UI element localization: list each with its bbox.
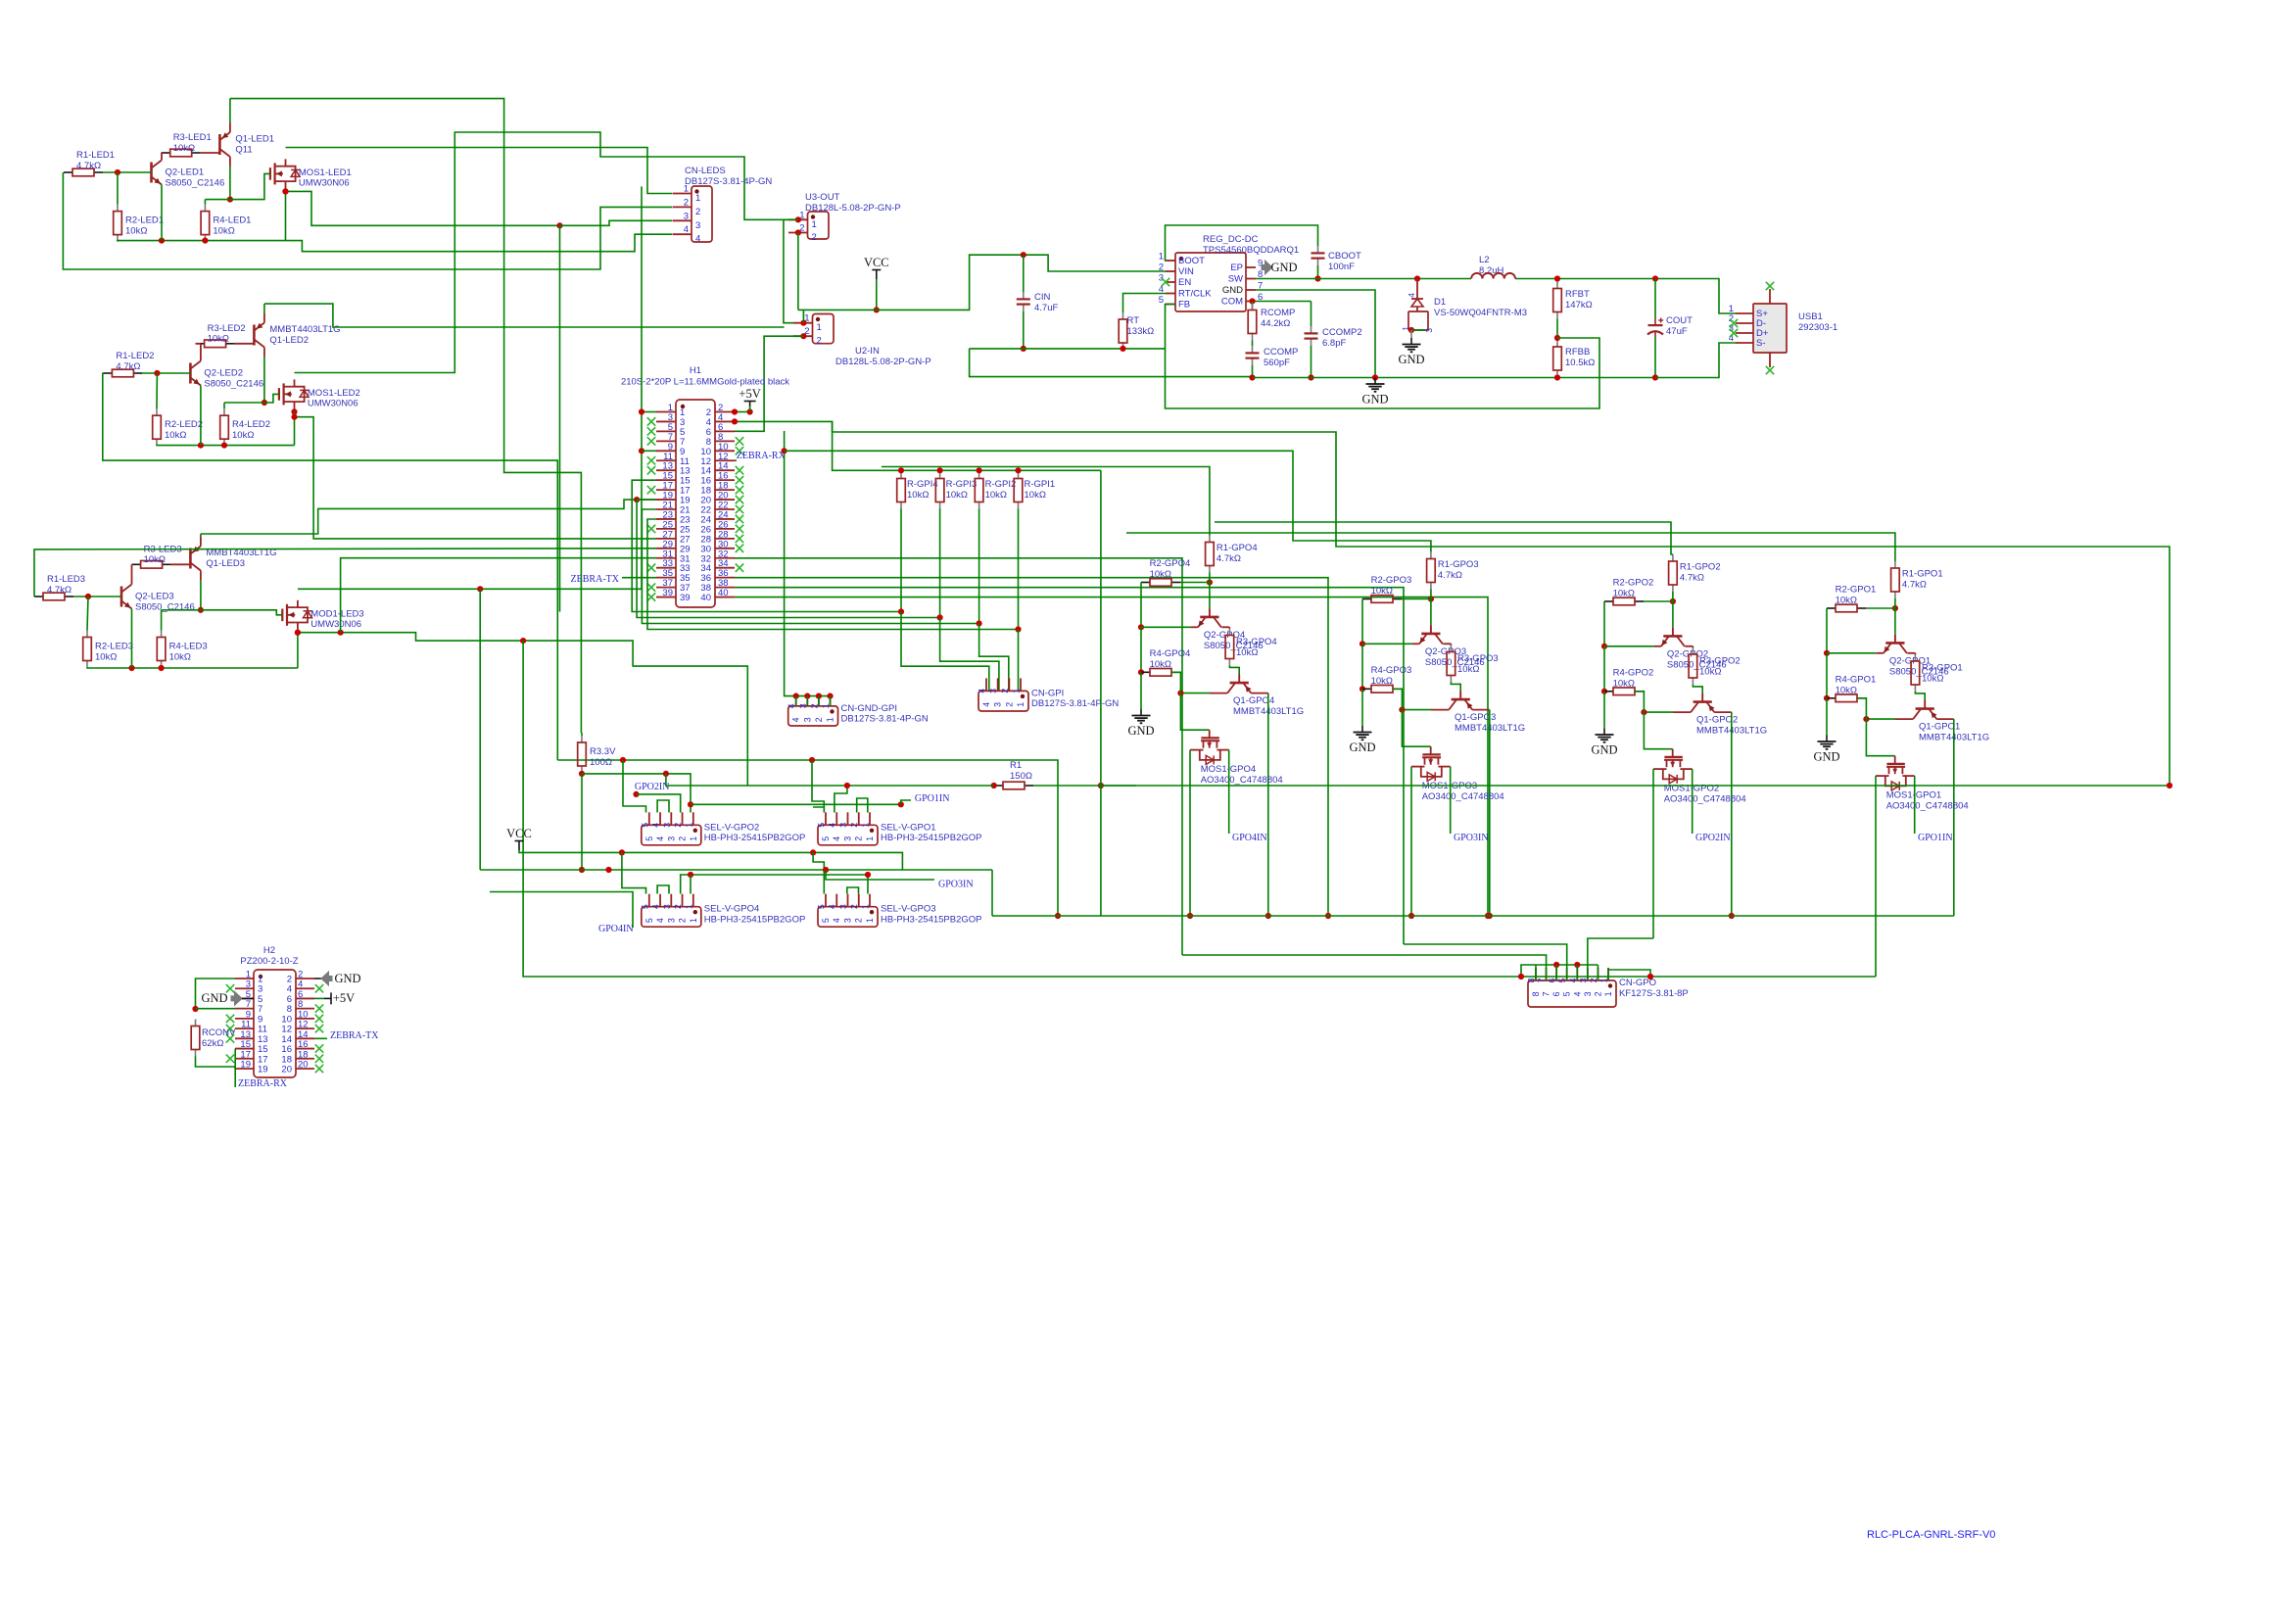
junction row802-2215 [2167, 783, 2172, 788]
wire gpo1in stub [901, 800, 911, 804]
svg-text:R1: R1 [1010, 760, 1022, 771]
wire R4 top LED3 [161, 610, 163, 631]
wire MOS source down [1652, 769, 1654, 938]
wire r1 bottom [1894, 598, 1896, 608]
wire U3-OUT pin1 to U2-IN pin1 [784, 219, 798, 322]
wire Q1 emitter LED3 [200, 534, 202, 537]
wire Q1 emitter down GPO3 [1489, 710, 1491, 916]
svg-text:RT/CLK: RT/CLK [1178, 289, 1212, 300]
resistor R4-LED1 [204, 205, 206, 212]
transistor Q1-LED2 [253, 325, 256, 346]
junction sel1 [844, 783, 850, 788]
wire emitter GPO4 [1141, 626, 1190, 628]
inductor L2 [1471, 273, 1515, 279]
resistor R1-GPO2 [1672, 554, 1674, 561]
resistor R3.3V [581, 736, 583, 742]
wire q1 collector [1644, 711, 1673, 713]
svg-text:10kΩ: 10kΩ [1836, 685, 1857, 695]
wire left rail bottom [1140, 672, 1142, 709]
svg-text:44.2kΩ: 44.2kΩ [1261, 318, 1290, 329]
resistor R2-GPO3 [1362, 598, 1371, 600]
wire r1 bottom [1672, 592, 1674, 601]
svg-text:4: 4 [655, 836, 665, 841]
svg-text:8: 8 [1527, 978, 1537, 982]
junction v655 pin1 [639, 408, 644, 414]
svg-text:5: 5 [640, 904, 649, 909]
junction CIN bottom [1021, 346, 1026, 352]
MOSFET MOS1-GPO4 [1209, 730, 1211, 738]
junction pin40 row935 [1485, 913, 1491, 919]
wire bus985 [1536, 964, 1598, 966]
svg-text:GPO3IN: GPO3IN [1454, 833, 1489, 843]
wire long 935 [992, 915, 1954, 917]
wire to USB S- [1655, 343, 1736, 378]
wire 964 to pin5 [1404, 944, 1567, 968]
svg-text:CN-GPI: CN-GPI [1031, 688, 1064, 698]
wire to USB S+ [1655, 279, 1736, 314]
wire CN-GPO pin lead [1546, 968, 1548, 980]
junction Q2e-LED2 [198, 443, 204, 449]
capacitor CIN [1023, 292, 1025, 299]
svg-text:10.5kΩ: 10.5kΩ [1565, 358, 1595, 368]
wire H1 pin1 left [642, 411, 656, 413]
svg-text:6: 6 [1551, 991, 1561, 996]
svg-text:GPO1IN: GPO1IN [1918, 833, 1953, 843]
junction FB divider [1554, 335, 1560, 341]
svg-text:GPO3IN: GPO3IN [938, 880, 974, 890]
transistor Q1-GPO4 [1238, 674, 1240, 683]
wire R1-LED3 to Q2 base [73, 596, 121, 597]
svg-text:5: 5 [821, 918, 831, 923]
svg-text:HB-PH3-25415PB2GOP: HB-PH3-25415PB2GOP [704, 915, 806, 926]
svg-text:Q2-LED1: Q2-LED1 [166, 167, 205, 178]
wire feed R1-GPO2 [1215, 522, 1673, 554]
svg-text:2: 2 [814, 717, 824, 722]
svg-text:3: 3 [838, 823, 848, 828]
wire pin lead [818, 696, 820, 706]
wire sel2 pins34 [657, 800, 669, 813]
wire Q1 collector LED3 [200, 580, 202, 610]
wire R1-LED1 to Q2 base [103, 171, 152, 173]
wire sel1 pin5 [813, 807, 824, 813]
resistor R4-GPO1 [1827, 697, 1836, 699]
junction vcc row a [619, 849, 625, 855]
svg-text:3: 3 [1583, 991, 1593, 996]
wire GPO4IN [490, 892, 633, 929]
wire base GPO1 [1894, 608, 1896, 635]
wire Q1 emitter LED1 [229, 99, 231, 123]
junction CIN top [1021, 252, 1026, 258]
svg-text:MOS1-LED2: MOS1-LED2 [308, 388, 360, 399]
svg-text:MOD1-LED3: MOD1-LED3 [310, 608, 363, 619]
wire r2 to node [1866, 607, 1895, 609]
svg-text:5: 5 [1557, 978, 1567, 982]
junction sel2 pin1 [688, 801, 693, 807]
w [234, 1048, 236, 1050]
svg-text:5: 5 [644, 836, 654, 841]
capacitor CCOMP [1252, 346, 1254, 353]
transistor Q1-LED3 [189, 549, 192, 569]
svg-text:40: 40 [700, 593, 711, 603]
resistor R2-GPO1 [1827, 607, 1836, 609]
svg-text:H1: H1 [690, 365, 701, 376]
svg-text:HB-PH3-25415PB2GOP: HB-PH3-25415PB2GOP [704, 833, 806, 843]
svg-text:4.7kΩ: 4.7kΩ [76, 161, 101, 171]
node source-LED1 [282, 188, 288, 194]
wire to SEL-V-GPO1 pin5 [812, 760, 824, 813]
svg-text:4: 4 [832, 836, 841, 841]
junction pin2 [732, 408, 738, 414]
wire Q1-LED2 emitter net [264, 304, 785, 327]
svg-text:HB-PH3-25415PB2GOP: HB-PH3-25415PB2GOP [881, 833, 982, 843]
svg-text:10kΩ: 10kΩ [232, 430, 254, 441]
svg-text:S-: S- [1756, 338, 1766, 349]
svg-text:R2-GPO4: R2-GPO4 [1150, 558, 1191, 569]
svg-text:8: 8 [1531, 991, 1541, 996]
svg-text:2: 2 [684, 197, 689, 208]
resistor R3-GPO4 [1228, 629, 1230, 636]
svg-text:4.7kΩ: 4.7kΩ [1902, 579, 1927, 590]
svg-text:3: 3 [993, 702, 1003, 707]
svg-text:3: 3 [1159, 273, 1164, 284]
wire to SEL-V-GPO2 pin5 [623, 760, 646, 813]
svg-text:4: 4 [787, 703, 796, 708]
wire pin36 long [735, 578, 1328, 916]
svg-text:Q1-LED3: Q1-LED3 [206, 558, 245, 569]
wire MOS source down [1410, 767, 1412, 916]
connector U2-IN [813, 314, 835, 344]
junction CN-GND-GPI pin [793, 693, 799, 699]
wire U3-OUT pin2 down [797, 233, 799, 310]
transistor Q2-GPO2 [1672, 628, 1674, 637]
junction source branch [556, 222, 562, 228]
svg-text:ZEBRA-TX: ZEBRA-TX [571, 574, 620, 585]
resistor R2-GPO2 [1604, 600, 1613, 602]
junction COUT top [1652, 275, 1658, 281]
junction RT bottom [1120, 346, 1125, 352]
svg-text:210S-2*20P L=11.6MMGold-plated: 210S-2*20P L=11.6MMGold-plated black [621, 377, 789, 388]
svg-text:4: 4 [981, 702, 991, 707]
wire Q2 emitter LED3 [131, 609, 133, 669]
wire Q1 collector LED1 [229, 167, 231, 200]
resistor RCOMP [1252, 304, 1254, 310]
svg-text:GPO2IN: GPO2IN [635, 782, 670, 792]
svg-text:6.8pF: 6.8pF [1322, 338, 1346, 349]
wire gate LED2 [224, 394, 279, 403]
resistor R4-GPO4 [1141, 671, 1150, 673]
svg-text:AO3400_C4748804: AO3400_C4748804 [1422, 791, 1504, 802]
svg-text:GND: GND [1127, 724, 1154, 738]
wire MOS drain down [1450, 767, 1452, 834]
svg-text:1: 1 [826, 717, 835, 722]
junction left rail GPO2 [1601, 644, 1607, 649]
junction gate GPO4 [1177, 691, 1183, 696]
junction R1/R2 GPO1 [1892, 605, 1898, 611]
svg-text:1: 1 [689, 836, 698, 841]
wire +5V stem [749, 406, 751, 412]
svg-text:DB127S-3.81-4P-GN: DB127S-3.81-4P-GN [685, 176, 772, 187]
w [234, 1067, 236, 1069]
junction RCONV top [192, 1006, 198, 1012]
svg-text:Q2-LED3: Q2-LED3 [135, 592, 174, 602]
svg-text:EP: EP [1230, 263, 1243, 273]
wire R1-LED2 net [103, 373, 558, 761]
resistor R2-LED2 [156, 408, 158, 415]
svg-text:4: 4 [791, 717, 801, 722]
junction drain branch [477, 586, 483, 592]
wire gnd row to rail [970, 349, 1255, 377]
junction COUT bottom [1652, 374, 1658, 380]
wire gate GPO4 [1171, 672, 1210, 730]
svg-text:R-GPI1: R-GPI1 [1025, 479, 1056, 490]
wire R-GPI3 down [939, 509, 941, 618]
connector CN-GPO [1528, 980, 1616, 1007]
svg-text:1: 1 [865, 836, 875, 841]
junction U2-IN pin1 [800, 320, 806, 326]
svg-text:10kΩ: 10kΩ [208, 334, 229, 345]
wire r2 to node [1402, 598, 1431, 600]
wire H1 pin4 to GPI rail [735, 421, 1101, 470]
svg-text:10kΩ: 10kΩ [1836, 595, 1857, 605]
svg-text:R1-GPO1: R1-GPO1 [1902, 569, 1943, 580]
junction R4 GPO3 [1360, 686, 1365, 692]
IC REG_DC-DC TPS54560BQDDARQ1 [1175, 253, 1246, 311]
svg-text:10kΩ: 10kΩ [95, 651, 117, 662]
wire emitter GPO3 [1362, 643, 1411, 645]
connector CN-LEDS [692, 186, 712, 242]
svg-text:2: 2 [854, 836, 864, 841]
svg-text:1: 1 [817, 322, 822, 333]
junction R-GPI4 top [898, 467, 904, 473]
svg-text:GPO4IN: GPO4IN [1232, 833, 1267, 843]
resistor R1-GPO3 [1430, 552, 1432, 559]
svg-text:GND: GND [201, 991, 227, 1005]
svg-text:5: 5 [640, 823, 649, 828]
capacitor CCOMP2 [1311, 326, 1312, 333]
svg-text:R2-LED2: R2-LED2 [165, 419, 203, 430]
transistor Q2-GPO4 [1209, 608, 1211, 617]
wire left rail mid [1140, 627, 1142, 672]
svg-text:2: 2 [1593, 991, 1602, 996]
svg-text:1: 1 [1159, 252, 1164, 263]
junction D1 [1414, 275, 1420, 281]
svg-text:R4-GPO4: R4-GPO4 [1150, 648, 1191, 659]
junction U3-OUT pin1 [795, 216, 801, 222]
wire R1-LED2 to Q2 base [142, 372, 190, 374]
svg-text:RFBT: RFBT [1565, 289, 1590, 300]
svg-text:10kΩ: 10kΩ [1236, 647, 1258, 658]
wire MOS source LED3 [297, 630, 299, 633]
wire feed R1-GPO4 [882, 467, 1210, 536]
resistor R3-LED2 [196, 343, 205, 345]
svg-text:R1-GPO4: R1-GPO4 [1217, 543, 1258, 553]
svg-text:2: 2 [1159, 263, 1164, 273]
junction R4-LED1 [202, 238, 208, 244]
svg-text:FB: FB [1178, 300, 1190, 310]
wire U2-IN pin2 to H1 pin6 [735, 336, 803, 431]
junction bus985 b [1574, 962, 1580, 968]
wire row802 ext [1101, 785, 2170, 787]
wire bus4 to CN-GPI pin1 [1018, 630, 1020, 692]
MOSFET MOS1-GPO3 [1430, 746, 1432, 754]
wire r3 to q1 [1229, 666, 1239, 675]
wire gnd bus up [784, 431, 786, 627]
svg-text:H2: H2 [263, 945, 275, 956]
svg-text:4.7uF: 4.7uF [1034, 303, 1058, 313]
wire pin35 to label [622, 577, 656, 579]
node base-LED3 [85, 594, 91, 599]
junction bus3 [977, 620, 982, 626]
wire left rail top [1361, 599, 1363, 645]
svg-text:R4-GPO1: R4-GPO1 [1836, 675, 1877, 686]
svg-text:Q2-LED2: Q2-LED2 [204, 368, 243, 379]
resistor RFBT [1556, 282, 1558, 289]
svg-text:R2-LED1: R2-LED1 [125, 215, 164, 226]
wire long row441-558 [833, 421, 2170, 786]
wire CN-GPO pin lead [1587, 968, 1589, 980]
wire r1 bottom [1430, 590, 1432, 599]
wire Q1 emitter LED2 [263, 304, 265, 313]
junction R4 GPO4 [1138, 669, 1144, 675]
svg-text:RT: RT [1127, 315, 1140, 326]
junction CBOOT-SW [1314, 275, 1320, 281]
wire gate GPO2 [1635, 692, 1673, 749]
svg-text:4: 4 [655, 918, 665, 923]
node gate-LED1 [227, 197, 233, 203]
svg-text:S8050_C2146: S8050_C2146 [166, 177, 225, 188]
wire left rail bottom [1361, 689, 1363, 726]
connector USB1 292303-1 [1753, 304, 1787, 353]
wire LED1 rail to CN-LEDS pin4 [286, 234, 673, 252]
wire CBOOT bottom [1317, 265, 1319, 279]
wire R-GPI4 down [900, 509, 902, 612]
wire base GPO2 [1672, 601, 1674, 628]
svg-text:R3-GPO2: R3-GPO2 [1699, 656, 1741, 667]
svg-text:2: 2 [678, 918, 688, 923]
svg-text:R1-GPO2: R1-GPO2 [1680, 562, 1721, 573]
wire pin32 long [735, 558, 1182, 955]
junction emitter row935 GPO2 [1729, 913, 1735, 919]
junction CCOMP rail [1249, 374, 1255, 380]
junction U3-OUT pin2 [795, 229, 801, 235]
wire RCOMP-CCOMP [1252, 341, 1254, 347]
junction RFBT top [1554, 275, 1560, 281]
svg-text:10kΩ: 10kΩ [213, 225, 234, 236]
resistor R1-LED1 [64, 171, 72, 173]
svg-text:4: 4 [832, 918, 841, 923]
svg-text:DB128L-5.08-2P-GN-P: DB128L-5.08-2P-GN-P [805, 203, 901, 214]
transistor Q2-GPO3 [1430, 625, 1432, 634]
wire R4 top LED2 [223, 403, 225, 408]
wire left rail mid [1603, 646, 1605, 692]
svg-text:3: 3 [666, 918, 676, 923]
svg-text:4: 4 [684, 224, 689, 235]
resistor R2-LED1 [117, 205, 119, 212]
junction emitter row935 GPO4 [1265, 913, 1271, 919]
wire pin lead [795, 696, 797, 706]
wire COM [1256, 301, 1312, 303]
junction v655 pin9 [639, 448, 644, 454]
svg-text:R-GPI4: R-GPI4 [907, 479, 938, 490]
svg-text:10kΩ: 10kΩ [1371, 586, 1393, 597]
wire to SEL-V-GPO4 pin5 [622, 852, 646, 893]
transistor Q1-GPO1 [1924, 700, 1926, 709]
junction row776 a [620, 757, 626, 763]
wire bus2 to CN-GPI pin3 [940, 618, 999, 692]
wire CCOMP2 to rail [1311, 346, 1312, 378]
svg-text:1: 1 [1603, 991, 1613, 996]
wire gnd row 356 [970, 348, 1166, 350]
wire gate GPO3 [1393, 689, 1431, 746]
wire q1 collector [1866, 718, 1895, 720]
node base-LED2 [154, 370, 160, 376]
junction row776 down [1055, 913, 1061, 919]
junction R3.3V bottom [579, 771, 585, 777]
junction Q2e-LED3 [128, 665, 134, 671]
junction R1 left [991, 783, 997, 788]
svg-text:HB-PH3-25415PB2GOP: HB-PH3-25415PB2GOP [881, 915, 982, 926]
resistor R1 [994, 785, 1003, 787]
svg-text:40: 40 [718, 588, 729, 598]
junction COM [1249, 298, 1255, 304]
MOSFET MOS1-LED2 [278, 388, 280, 401]
svg-text:4: 4 [651, 904, 661, 909]
wire rgpi top [1018, 470, 1020, 471]
resistor R-GPI1 [1018, 472, 1020, 479]
resistor R3-GPO3 [1450, 645, 1452, 652]
resistor R1-GPO4 [1209, 536, 1211, 543]
wire MOS source down [1189, 750, 1191, 916]
svg-text:2: 2 [673, 904, 683, 909]
svg-text:+5V: +5V [739, 387, 760, 401]
svg-text:2: 2 [849, 823, 859, 828]
junction gate GPO3 [1399, 707, 1405, 713]
wire Q1 emitter down GPO1 [1953, 719, 1955, 916]
wire bus3 to CN-GPI pin2 [979, 624, 1009, 692]
wire left rail top [1603, 601, 1605, 646]
wire MOS source down [1875, 776, 1877, 977]
resistor R3-GPO1 [1914, 654, 1916, 661]
svg-text:3: 3 [802, 717, 812, 722]
svg-text:PZ200-2-10-Z: PZ200-2-10-Z [240, 956, 298, 967]
wire MOS source LED1 [285, 188, 287, 191]
wire pin40 long [735, 597, 1488, 916]
connector SEL-V-GPO1 [818, 825, 878, 845]
wire gate LED1 [205, 173, 270, 199]
wire pin14 [314, 1037, 327, 1039]
svg-text:RCOMP: RCOMP [1261, 308, 1295, 318]
junction VCC [874, 307, 880, 312]
wire v655 long [641, 186, 643, 589]
wire base GPO3 [1430, 599, 1432, 626]
svg-text:62kΩ: 62kΩ [202, 1038, 223, 1049]
wire MOS1-LED2 drain net [295, 132, 789, 373]
junction R1 right [1098, 783, 1104, 788]
svg-text:4.7kΩ: 4.7kΩ [1438, 570, 1462, 581]
wire Q1 collector LED2 [263, 357, 265, 403]
wire r33 bottom [581, 772, 583, 775]
svg-text:47uF: 47uF [1666, 326, 1688, 337]
wire to R2-LED1 [117, 172, 119, 205]
junction CCOMP2 rail [1308, 374, 1313, 380]
wire left rail bottom [1826, 698, 1828, 736]
diode D1 [1416, 279, 1418, 300]
wire Q1 emitter down GPO4 [1267, 693, 1269, 916]
svg-text:2: 2 [1589, 978, 1598, 982]
svg-text:2: 2 [817, 336, 822, 347]
wire pin lead [806, 696, 808, 706]
svg-text:R1-GPO3: R1-GPO3 [1438, 559, 1479, 570]
